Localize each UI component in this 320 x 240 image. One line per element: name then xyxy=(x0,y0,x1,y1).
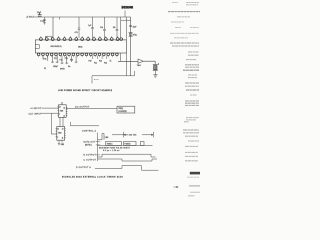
svg-text:11: 11 xyxy=(64,115,66,117)
capacitor C4 above IC xyxy=(91,17,94,38)
timing row2 data box C xyxy=(141,141,145,145)
text line rc10 xyxy=(172,45,199,47)
header fragment h1 xyxy=(172,1,178,3)
text line rc26c xyxy=(186,119,196,121)
svg-text:XTAL: XTAL xyxy=(133,33,137,36)
IC U2 pins xyxy=(57,104,67,116)
text line rc28 xyxy=(183,132,199,134)
text line rc12 xyxy=(188,54,199,56)
svg-text:P21: P21 xyxy=(94,63,97,65)
text line rc14 xyxy=(185,64,199,66)
speaker LS1 xyxy=(153,63,159,71)
wire to U2 pin b xyxy=(41,112,59,114)
wire bottom pin stubs xyxy=(39,56,117,57)
text line rc22 xyxy=(190,94,197,96)
svg-text:P23: P23 xyxy=(104,63,107,65)
wire stub x126.5 xyxy=(125,17,127,40)
svg-text:MICROLAB 8048 EXTERNAL CLOCK T: MICROLAB 8048 EXTERNAL CLOCK TIMING DIAG xyxy=(62,175,123,178)
right column text block xyxy=(168,2,200,160)
svg-text:≈ ——: ≈ —— xyxy=(94,79,99,81)
wire stub x120.5 below IC xyxy=(120,53,122,61)
svg-text:7490: 7490 xyxy=(60,111,64,113)
ground G3 speaker xyxy=(153,75,157,77)
op-amp buffer A1 xyxy=(138,59,143,63)
wire bottom pin drops xyxy=(43,56,76,63)
text line rc13 xyxy=(186,59,196,61)
wire U3 bottom stubs xyxy=(58,140,60,143)
svg-text:4.0 µs = 1.36 ms: 4.0 µs = 1.36 ms xyxy=(103,150,120,152)
svg-text:27pF: 27pF xyxy=(133,26,137,28)
wire U2 to U3 xyxy=(59,117,61,126)
timing row1 pulse xyxy=(98,134,105,140)
resistor R2 above IC xyxy=(103,17,106,38)
header fragment h2 xyxy=(186,1,199,3)
timing row2 data box A xyxy=(106,141,122,145)
timing label row2 dash xyxy=(96,141,101,143)
wire left rail down to U3 xyxy=(51,113,57,134)
timing row2 data box B xyxy=(124,141,136,145)
svg-text:10k: 10k xyxy=(113,27,116,29)
wire short stubs below right pins xyxy=(93,56,107,59)
text line rc5 xyxy=(175,27,181,29)
IC U1 pin1 notch xyxy=(35,45,39,49)
svg-text:10k: 10k xyxy=(100,27,103,29)
text line rc19 xyxy=(185,82,199,84)
node bubble above U2 xyxy=(61,102,62,103)
wire rail stub up x125 xyxy=(124,11,126,18)
svg-text:INS8048: INS8048 xyxy=(122,5,134,9)
wire U2 to U3 second xyxy=(62,117,64,126)
text line rc31 xyxy=(185,145,198,147)
svg-text:P10: P10 xyxy=(44,59,47,61)
svg-text:COUNTER: COUNTER xyxy=(118,111,127,113)
svg-text:1 MS: 1 MS xyxy=(105,137,109,139)
svg-text:P12: P12 xyxy=(60,60,63,62)
text line rc24 xyxy=(185,102,199,104)
svg-text:P13: P13 xyxy=(65,58,68,60)
svg-text:T1: T1 xyxy=(110,61,112,63)
text line rc9 xyxy=(170,42,199,44)
capacitor C1 10uF xyxy=(38,13,42,16)
jumper above pins 2-3 xyxy=(46,36,52,38)
svg-text:14: 14 xyxy=(59,107,61,109)
IC U2 box xyxy=(59,105,67,118)
svg-text:D OUTPUT A: D OUTPUT A xyxy=(76,166,91,169)
ground G4 below U3 xyxy=(58,144,60,146)
arrow mark bottom xyxy=(174,186,179,188)
text line r34 xyxy=(188,194,195,197)
text line rc4 xyxy=(171,21,184,23)
text line rc7 xyxy=(170,32,199,34)
svg-text:LOW POWER SOUND EFFECT CIRCUIT: LOW POWER SOUND EFFECT CIRCUIT EXAMPLE xyxy=(58,89,113,92)
crystal Y1 on right chain xyxy=(129,32,133,36)
IC U1 INS8048 body xyxy=(35,40,126,53)
text line rc20 xyxy=(185,85,199,87)
timing row2 baseline xyxy=(98,144,153,146)
svg-text:12: 12 xyxy=(64,107,66,109)
text line rc30 xyxy=(188,140,199,142)
svg-text:P14: P14 xyxy=(70,60,73,62)
timing left axis xyxy=(97,133,99,161)
text line rc33 xyxy=(185,155,198,157)
text line rc8 xyxy=(174,37,188,39)
text line r32 xyxy=(189,185,200,186)
wire xtal return loop xyxy=(92,71,135,84)
text line rc11 xyxy=(188,51,199,53)
svg-text:1µF: 1µF xyxy=(88,25,91,27)
wire IC right to buffer xyxy=(118,60,138,62)
text line rc1 xyxy=(186,4,198,6)
text line rc16 xyxy=(183,69,199,71)
svg-text:(NOTE 1): (NOTE 1) xyxy=(85,145,92,147)
svg-text:P22: P22 xyxy=(99,61,102,63)
text line rc32 xyxy=(185,151,198,153)
text line rc26 xyxy=(184,121,189,123)
svg-text:SPKR: SPKR xyxy=(60,69,65,71)
box frequency counter xyxy=(117,106,135,113)
svg-text:4.7k: 4.7k xyxy=(75,32,78,34)
wire U2 output to counter box xyxy=(66,107,117,109)
svg-text:C OUTPUT: C OUTPUT xyxy=(84,159,97,161)
wire speaker to ground xyxy=(154,71,156,75)
wire stub x120 to rail xyxy=(120,17,122,38)
ground G2 below pins xyxy=(51,62,78,64)
wire buffer to speaker xyxy=(143,61,155,64)
ground G1 xyxy=(43,23,45,25)
text line rc26b xyxy=(186,117,199,119)
svg-text:B OUTPUT: B OUTPUT xyxy=(84,155,97,157)
wire to U2 pin a xyxy=(42,107,59,109)
wire rail drop to IC pin x53 xyxy=(52,17,54,38)
svg-text:7404: 7404 xyxy=(137,65,141,67)
svg-text:DATA OUT: DATA OUT xyxy=(84,140,97,143)
text line rc18 xyxy=(188,77,197,79)
text line rc29 xyxy=(185,135,198,137)
svg-text:≈ 400 MS: ≈ 400 MS xyxy=(127,134,138,136)
svg-text:S1: S1 xyxy=(44,68,46,70)
text line rc21 xyxy=(186,89,199,91)
svg-text:14: 14 xyxy=(57,129,59,131)
resistor R3 above IC xyxy=(116,17,119,38)
svg-text:P20: P20 xyxy=(89,61,92,63)
svg-text:12: 12 xyxy=(62,128,64,130)
svg-text:CLK INPUT: CLK INPUT xyxy=(29,113,43,115)
IC U1 bottom pin circles xyxy=(37,53,118,56)
text line rc2 xyxy=(168,11,200,13)
text line rc3 xyxy=(177,16,190,18)
timing row5 waveform xyxy=(95,166,158,171)
timing row1 dimension arrows xyxy=(112,132,153,138)
IC U3 box xyxy=(57,127,65,141)
wire +5V top rail xyxy=(34,16,131,18)
text line rc27 xyxy=(183,129,199,131)
text line rc34 xyxy=(185,160,198,162)
dark separator bar bottom right xyxy=(190,172,200,175)
text line rc6 xyxy=(190,27,199,29)
svg-text:TONE B: TONE B xyxy=(124,143,130,145)
IC U1 top pin circles xyxy=(40,38,123,41)
timing row3 waveform xyxy=(98,154,156,157)
svg-text:CONTROL A: CONTROL A xyxy=(82,129,97,132)
IC U3 pins xyxy=(56,128,66,138)
wire second rail segment xyxy=(121,19,131,21)
timing label row4 dash xyxy=(96,154,100,156)
svg-text:INS 8048-11: INS 8048-11 xyxy=(51,46,63,48)
timing row4 waveform xyxy=(98,159,158,161)
svg-text:100µF: 100µF xyxy=(53,66,58,68)
text line r33 xyxy=(190,191,200,194)
text line rc17 xyxy=(188,74,197,76)
wire rail stub x59.5 xyxy=(59,17,61,20)
wire IC right edge down to loop xyxy=(125,53,127,76)
svg-text:+5 VOLT: +5 VOLT xyxy=(26,17,35,19)
timing label row3 dash xyxy=(96,144,101,146)
wire right vertical x130.6 xyxy=(130,17,132,76)
wire U3 to CONTROL A xyxy=(71,122,100,126)
text line rc23 xyxy=(185,100,199,102)
resistor R1 pullup xyxy=(78,17,80,38)
text line under bar xyxy=(187,176,199,178)
wire top pin stubs xyxy=(41,36,118,38)
svg-text:7493: 7493 xyxy=(58,133,62,135)
svg-text:P11: P11 xyxy=(54,58,57,60)
text line rc25 xyxy=(185,104,199,106)
svg-text:+5 INPUT: +5 INPUT xyxy=(30,108,42,110)
svg-text:11: 11 xyxy=(62,138,64,140)
text line rc15 xyxy=(185,66,199,68)
capacitor C3 on right chain xyxy=(129,26,132,27)
